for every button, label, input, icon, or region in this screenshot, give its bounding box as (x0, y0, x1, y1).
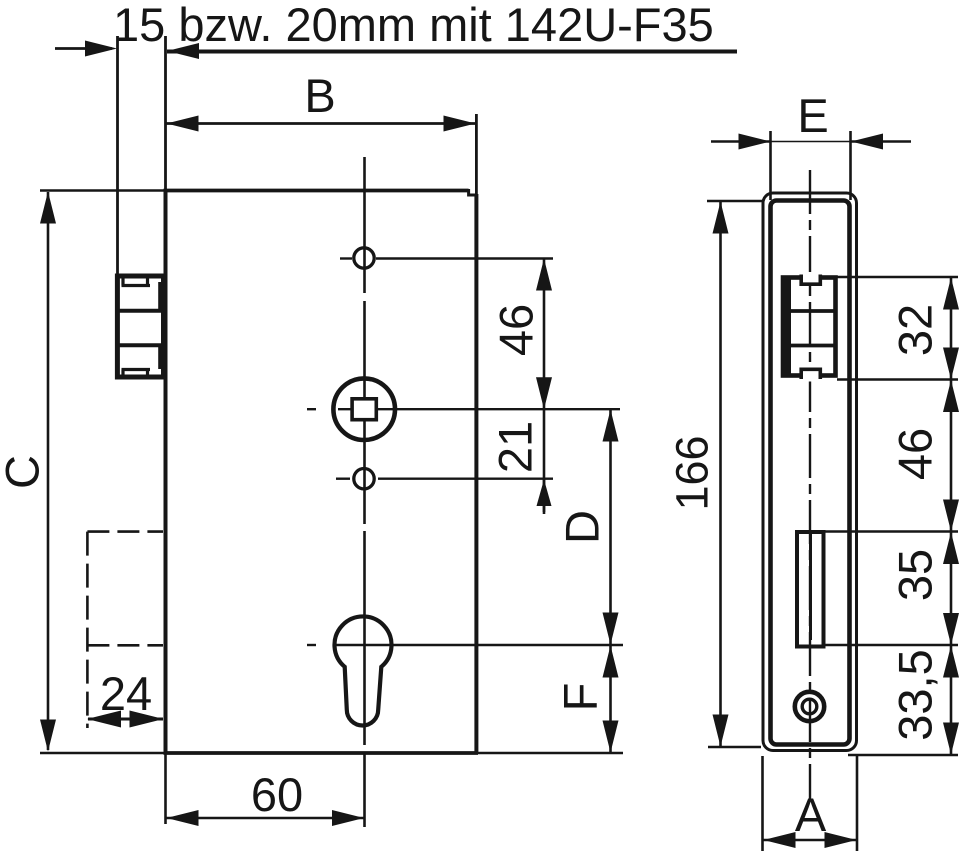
arrow 32 down (943, 348, 959, 380)
svg-text:C: C (0, 455, 49, 489)
arrow 46 side down (943, 500, 959, 532)
svg-text:21: 21 (489, 421, 542, 473)
arrow D up (603, 410, 619, 442)
latch top notch (122, 277, 151, 286)
lock case top edge (164, 189, 469, 193)
bottom extension to C (40, 752, 165, 755)
extension from mid hole (378, 478, 553, 480)
arrow 60 right (332, 810, 364, 826)
latch block thick left face (782, 276, 791, 378)
dimension E middle line (771, 141, 852, 143)
top right step (469, 189, 477, 195)
title underline / dimension line (167, 50, 737, 54)
arrow 46 side up (943, 380, 959, 412)
arrow 166 down (713, 715, 729, 747)
hidden slot dashed bottom (87, 644, 163, 647)
dimension line 46/21 (543, 259, 546, 513)
extension 32 bottom (837, 378, 958, 380)
arrow 60 left (167, 810, 199, 826)
svg-text:15 bzw. 20mm mit 142U-F35: 15 bzw. 20mm mit 142U-F35 (113, 0, 714, 51)
side view outer case (763, 193, 857, 751)
arrow A left (764, 832, 796, 848)
arrow E right inward (851, 134, 883, 150)
arrow 24 left (87, 711, 121, 728)
extension E right (849, 131, 852, 200)
centre dash left of follower (307, 408, 316, 410)
arrow 33,5 down (943, 723, 959, 755)
lock case left edge (164, 189, 168, 753)
svg-text:46: 46 (490, 304, 543, 356)
latch block divider lower (783, 344, 836, 348)
centre dash left of screw hole mid (336, 478, 350, 480)
hidden slot dashed top (87, 530, 163, 533)
arrow F down (603, 721, 619, 753)
latch stem edge upper (158, 282, 161, 309)
latch block divider upper (783, 309, 836, 313)
arrow E left inward (739, 134, 771, 150)
dimension E right leader (851, 140, 911, 143)
arrow 46/21 down at follower (536, 377, 552, 409)
bolt edge seen in slot (809, 534, 812, 640)
profile cylinder keyhole (335, 616, 392, 725)
svg-text:60: 60 (251, 768, 303, 821)
latch block bottom notch gap (802, 371, 820, 382)
follower horizontal centre line (338, 408, 620, 410)
arrow left at case wall (167, 43, 199, 59)
extension 33,5 bottom (848, 754, 958, 756)
extension 32 top (837, 276, 958, 278)
extension line case right above (475, 114, 478, 196)
extension A left (761, 756, 764, 851)
follower square hole (352, 399, 376, 420)
svg-text:E: E (797, 89, 828, 142)
dimension line A (763, 839, 857, 842)
latch block bottom notch (801, 368, 821, 380)
arrow 32 up (943, 278, 959, 310)
case top extension to C (40, 189, 165, 192)
latch block top notch (801, 275, 821, 287)
arrow 166 up (713, 202, 729, 234)
side view centre dashed line (809, 170, 811, 800)
lock case right edge (474, 194, 478, 753)
arrow 35 down (943, 613, 959, 645)
dimension line 60 (166, 817, 364, 820)
arrow B right (444, 116, 476, 132)
follower hub circle (333, 378, 395, 440)
arrow B left (167, 116, 199, 132)
lock case bottom edge (164, 751, 479, 755)
extension E left (769, 131, 772, 200)
arrow C down (40, 720, 56, 752)
latch bottom notch (122, 370, 151, 377)
extension 35 bottom (825, 644, 958, 646)
svg-text:B: B (304, 69, 335, 122)
arrow A right (825, 832, 857, 848)
svg-text:35: 35 (889, 549, 942, 601)
latch block side view outline (783, 278, 836, 376)
hidden slot dashed left / extension 24 (86, 532, 89, 728)
svg-text:166: 166 (667, 435, 718, 510)
latch divider lower (115, 343, 164, 347)
side view inner case (771, 201, 850, 745)
svg-text:F: F (554, 683, 607, 712)
extension from top hole (376, 257, 553, 259)
screw hole top (354, 248, 374, 268)
arrow C up (40, 192, 56, 224)
extension 35 top (825, 530, 958, 532)
latch stem edge lower (158, 347, 161, 369)
arrow D down (603, 613, 619, 645)
dimension line 24 (88, 718, 163, 721)
svg-text:24: 24 (100, 667, 152, 720)
extension 166 bottom (708, 746, 761, 748)
cylinder hole centre extension (336, 644, 623, 646)
arrow 46 up (536, 259, 552, 291)
latch block top notch gap (802, 272, 820, 283)
arrow 35 up (943, 532, 959, 564)
screw hole side view inner (802, 699, 817, 714)
svg-text:A: A (795, 788, 827, 841)
latch bolt front view outline (117, 276, 163, 377)
dimension line B (166, 122, 477, 125)
dimension line D/F (609, 409, 612, 753)
arrow 24 right (130, 711, 164, 728)
bottom extension right to F (478, 752, 623, 754)
arrow F up (603, 646, 619, 678)
dimension E left leader (711, 140, 771, 143)
dimension 15/20 left leader (55, 47, 112, 50)
arrow 33,5 up (943, 646, 959, 678)
dimension line right column (950, 277, 953, 755)
dimension line 166 (719, 201, 722, 747)
extension 60 left (164, 754, 167, 824)
arrow right toward faceplate front (85, 41, 117, 57)
extension A right (856, 756, 859, 851)
svg-text:D: D (556, 510, 609, 544)
dimension line C (47, 192, 50, 750)
arrow 21 up below hole (537, 480, 552, 507)
svg-text:32: 32 (889, 304, 942, 356)
extension 166 top (707, 200, 762, 202)
extension line case left above (164, 36, 167, 190)
svg-text:33,5: 33,5 (889, 649, 942, 740)
slot side view (797, 532, 824, 647)
vertical centre line front view (363, 157, 366, 827)
screw hole mid (354, 469, 374, 489)
extension line faceplate front (116, 36, 119, 274)
latch divider upper (115, 309, 164, 313)
centre dash left of cylinder hole (307, 644, 316, 646)
centre dash left of screw hole top (340, 257, 352, 259)
svg-text:46: 46 (889, 428, 942, 480)
screw hole side view outer (795, 692, 824, 721)
